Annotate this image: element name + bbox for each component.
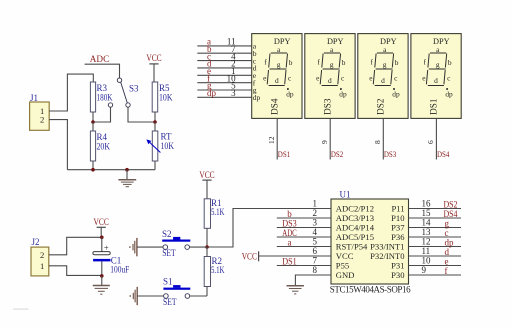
display pin names a-dp xyxy=(253,42,261,102)
svg-text:g: g xyxy=(436,60,440,69)
U1 pin 10 net e xyxy=(409,256,462,267)
svg-text:dp: dp xyxy=(339,90,347,99)
wire ground rail bottom xyxy=(67,169,155,171)
svg-text:d: d xyxy=(328,76,332,85)
U1 pin 11 net d xyxy=(409,246,462,257)
wire node to R2 xyxy=(206,247,208,257)
ground at U1 pin8 xyxy=(287,286,304,294)
svg-text:GND: GND xyxy=(336,270,355,280)
U1 pin 2 net b xyxy=(277,208,331,219)
svg-text:b: b xyxy=(448,58,452,67)
svg-text:dp: dp xyxy=(445,238,455,248)
svg-text:9: 9 xyxy=(422,265,427,275)
svg-text:b: b xyxy=(287,209,292,219)
node C1 bottom/ground xyxy=(100,274,104,278)
svg-text:6: 6 xyxy=(313,246,318,256)
svg-text:DS4: DS4 xyxy=(270,98,280,115)
svg-text:RST/P54: RST/P54 xyxy=(336,242,368,252)
wire RT bottom to rail xyxy=(154,161,156,170)
wire R5 bottom to node xyxy=(154,112,156,122)
svg-text:ADC: ADC xyxy=(282,228,297,238)
svg-text:8: 8 xyxy=(313,265,318,275)
svg-text:1: 1 xyxy=(40,261,44,271)
U1 pin1 wire from R1/R2 node xyxy=(207,209,331,248)
svg-text:dp: dp xyxy=(445,90,453,99)
U1 pin 5 net a xyxy=(277,237,331,248)
svg-text:ADC4/P14: ADC4/P14 xyxy=(336,223,375,233)
svg-text:DS2: DS2 xyxy=(331,150,343,159)
svg-text:P33/INT1: P33/INT1 xyxy=(370,242,404,252)
svg-text:e: e xyxy=(445,257,449,267)
svg-text:f: f xyxy=(445,266,448,276)
svg-text:DS3: DS3 xyxy=(384,150,396,159)
svg-text:8: 8 xyxy=(373,140,382,144)
U1 pin 7 net DS1 xyxy=(277,256,331,267)
svg-text:VCC: VCC xyxy=(336,251,354,261)
svg-text:14: 14 xyxy=(422,218,432,228)
svg-text:6: 6 xyxy=(426,140,435,144)
svg-text:3: 3 xyxy=(313,218,318,228)
svg-text:DS1: DS1 xyxy=(278,150,290,159)
node R5/RT junction xyxy=(153,120,157,124)
wire S3 right throw to R5/RT node xyxy=(128,107,154,122)
svg-text:S1: S1 xyxy=(163,276,173,286)
svg-text:11: 11 xyxy=(422,246,431,256)
svg-text:dp: dp xyxy=(392,90,400,99)
U1 pin 9 net f xyxy=(409,265,462,276)
bottom-left edge artifact xyxy=(13,309,29,310)
wire S2 left xyxy=(137,246,163,248)
net g stub to display pin 5 xyxy=(197,81,251,91)
wire rail to ground xyxy=(126,170,128,180)
svg-text:20K: 20K xyxy=(97,142,111,152)
node R1/R2/S2 xyxy=(205,245,209,249)
svg-text:10K: 10K xyxy=(161,141,175,151)
resistor R5 10K xyxy=(152,82,173,112)
resistor R1 5.1K xyxy=(204,198,225,229)
svg-text:9: 9 xyxy=(320,140,329,144)
U1 pin 16 net DS2 xyxy=(409,199,462,210)
svg-text:7: 7 xyxy=(313,256,318,266)
net b stub to display pin 7 xyxy=(197,44,251,54)
svg-text:dp: dp xyxy=(253,93,261,102)
svg-text:16: 16 xyxy=(422,199,432,209)
svg-text:P36: P36 xyxy=(391,232,405,242)
svg-text:d: d xyxy=(381,76,385,85)
svg-text:d: d xyxy=(434,76,438,85)
U1 pin 1 xyxy=(313,199,318,209)
svg-text:J1: J1 xyxy=(30,93,38,103)
svg-text:2: 2 xyxy=(40,250,44,260)
svg-text:VCC: VCC xyxy=(242,251,257,261)
svg-text:15: 15 xyxy=(422,208,432,218)
net label ADC xyxy=(85,54,120,78)
svg-text:DS1: DS1 xyxy=(282,257,297,267)
wire R4 bottom xyxy=(92,161,94,170)
node VCC/C1 top xyxy=(100,236,104,240)
svg-text:ADC3/P13: ADC3/P13 xyxy=(336,213,374,223)
svg-text:2: 2 xyxy=(40,115,44,125)
svg-text:10K: 10K xyxy=(159,93,173,103)
power VCC at U1 pin6 xyxy=(242,251,259,261)
svg-text:DS3: DS3 xyxy=(282,219,297,229)
display common pin 12 to net DS1 xyxy=(267,118,290,159)
display common pin 8 to net DS3 xyxy=(373,118,396,159)
wire node to R4 xyxy=(92,122,94,131)
svg-text:VCC: VCC xyxy=(94,217,109,227)
U1 pin 14 net g xyxy=(409,218,462,229)
connector J1 xyxy=(30,93,50,130)
svg-text:VCC: VCC xyxy=(146,53,161,63)
svg-text:g: g xyxy=(445,219,450,229)
wire C1 bottom to node xyxy=(101,261,103,275)
svg-text:c: c xyxy=(445,228,449,238)
svg-text:5: 5 xyxy=(313,237,318,247)
wire S1 right to R2 xyxy=(190,295,207,297)
wire R3 bottom to node xyxy=(92,112,94,122)
svg-text:5.1K: 5.1K xyxy=(211,207,225,217)
resistor R2 5.1K xyxy=(204,256,225,287)
side ground at S2 xyxy=(130,238,137,256)
wire S1 left xyxy=(137,295,163,297)
svg-text:U1: U1 xyxy=(340,190,351,200)
wire node to ground xyxy=(101,276,103,286)
capacitor C1 100uF xyxy=(93,243,129,275)
svg-text:P31: P31 xyxy=(391,261,404,271)
svg-text:12: 12 xyxy=(267,136,276,144)
svg-text:d: d xyxy=(445,247,450,257)
resistor R4 20K xyxy=(90,131,110,161)
svg-text:VCC: VCC xyxy=(199,170,214,180)
svg-text:P30: P30 xyxy=(391,270,404,280)
svg-text:a: a xyxy=(288,238,292,248)
svg-text:DS4: DS4 xyxy=(444,209,458,219)
svg-text:b: b xyxy=(289,58,293,67)
wire VCC to R5 xyxy=(153,64,155,82)
svg-text:R4: R4 xyxy=(97,132,108,142)
net f stub to display pin 10 xyxy=(197,73,251,83)
U1 pin 6 xyxy=(259,246,331,256)
resistor R3 180K xyxy=(90,82,113,112)
svg-text:b: b xyxy=(342,58,346,67)
svg-text:d: d xyxy=(275,76,279,85)
svg-text:5.1K: 5.1K xyxy=(211,265,225,275)
U1 pin 13 net c xyxy=(409,227,462,238)
wire J2 pin1 to ground node xyxy=(49,266,102,276)
power VCC (left) xyxy=(146,53,161,64)
connector J2 xyxy=(31,237,49,276)
svg-text:P32/INT0: P32/INT0 xyxy=(370,251,404,261)
svg-text:1: 1 xyxy=(313,199,318,209)
switch S3 xyxy=(108,78,139,107)
wire J2 pin2 to VCC node xyxy=(49,237,102,255)
display DS2 (DPY) xyxy=(358,34,408,119)
net dp stub to display pin 3 xyxy=(197,88,251,98)
wire VCC to node xyxy=(100,227,102,237)
wire node to RT xyxy=(154,122,156,131)
op IC U1 STC15W404AS-SOP16 xyxy=(330,190,411,295)
svg-text:12: 12 xyxy=(422,237,431,247)
svg-text:10: 10 xyxy=(422,256,432,266)
svg-text:4: 4 xyxy=(313,227,318,237)
svg-text:13: 13 xyxy=(422,227,432,237)
pushbutton S1 SET xyxy=(163,276,190,307)
svg-text:ADC: ADC xyxy=(90,54,109,64)
wire S3 left throw to R3/R4 node xyxy=(95,107,111,122)
power VCC above R1 xyxy=(199,170,214,180)
svg-text:100uF: 100uF xyxy=(110,265,129,275)
display DS1 (DPY) xyxy=(411,34,461,119)
display common pin 6 to net DS4 xyxy=(426,118,450,159)
svg-text:R5: R5 xyxy=(159,83,170,93)
svg-text:g: g xyxy=(277,60,281,69)
U1 pin 8 xyxy=(295,265,331,285)
wire J1 pin2 down to ground rail xyxy=(49,120,67,170)
ground below C1 xyxy=(93,286,110,295)
svg-text:SET: SET xyxy=(163,297,177,307)
svg-text:dp: dp xyxy=(207,88,217,98)
wire R1 bottom to node xyxy=(206,228,208,247)
side ground at S1 xyxy=(130,287,137,305)
svg-text:ADC2/P12: ADC2/P12 xyxy=(336,204,374,214)
net d stub to display pin 2 xyxy=(197,59,251,69)
svg-text:R3: R3 xyxy=(97,83,108,93)
svg-text:SET: SET xyxy=(162,248,176,258)
svg-text:DS2: DS2 xyxy=(376,98,386,115)
svg-text:+: + xyxy=(104,243,109,253)
svg-text:2: 2 xyxy=(313,208,318,218)
svg-text:g: g xyxy=(330,60,334,69)
svg-text:P55: P55 xyxy=(336,261,349,271)
ground (left divider) xyxy=(118,180,136,187)
thermistor RT 10K xyxy=(146,131,174,161)
wire R2 bottom to S1 xyxy=(206,287,208,297)
svg-text:P10: P10 xyxy=(391,213,404,223)
svg-text:DS1: DS1 xyxy=(429,98,439,115)
svg-text:STC15W404AS-SOP16: STC15W404AS-SOP16 xyxy=(330,285,411,295)
svg-text:P11: P11 xyxy=(391,204,404,214)
net c stub to display pin 4 xyxy=(197,51,251,61)
svg-text:180K: 180K xyxy=(97,93,113,103)
U1 pin 15 net DS4 xyxy=(409,208,462,219)
svg-text:dp: dp xyxy=(286,90,294,99)
wire S2 right to node xyxy=(190,246,208,248)
svg-text:3: 3 xyxy=(231,88,236,98)
U1 pin 4 net ADC xyxy=(277,227,331,238)
svg-text:J2: J2 xyxy=(32,237,40,247)
svg-text:b: b xyxy=(395,58,399,67)
svg-text:S2: S2 xyxy=(162,229,172,239)
node rail/ground junction xyxy=(125,168,129,172)
display common pin 9 to net DS2 xyxy=(320,118,343,159)
svg-text:g: g xyxy=(383,60,387,69)
net a stub to display pin 11 xyxy=(197,37,251,47)
wire J1 pin1 to R3 top xyxy=(49,74,93,111)
wire node to C1 xyxy=(101,237,103,251)
svg-text:S3: S3 xyxy=(129,84,139,94)
svg-text:P37: P37 xyxy=(391,223,405,233)
display DS4 (DPY) xyxy=(252,34,302,119)
node R4/rail junction xyxy=(91,168,95,172)
pushbutton S2 SET xyxy=(162,229,190,258)
node R3/R4 junction xyxy=(91,120,95,124)
svg-text:RT: RT xyxy=(161,132,172,142)
svg-text:DS3: DS3 xyxy=(323,98,333,115)
display DS3 (DPY) xyxy=(305,34,355,119)
U1 pin 12 net dp xyxy=(409,237,462,248)
wire VCC to R1 xyxy=(206,180,208,199)
U1 pin 3 net DS3 xyxy=(277,218,331,229)
power VCC above C1 xyxy=(94,217,109,227)
svg-text:DS4: DS4 xyxy=(437,150,450,159)
svg-text:DS2: DS2 xyxy=(444,200,458,210)
net e stub to display pin 1 xyxy=(197,66,251,76)
svg-text:ADC5/P15: ADC5/P15 xyxy=(336,232,374,242)
